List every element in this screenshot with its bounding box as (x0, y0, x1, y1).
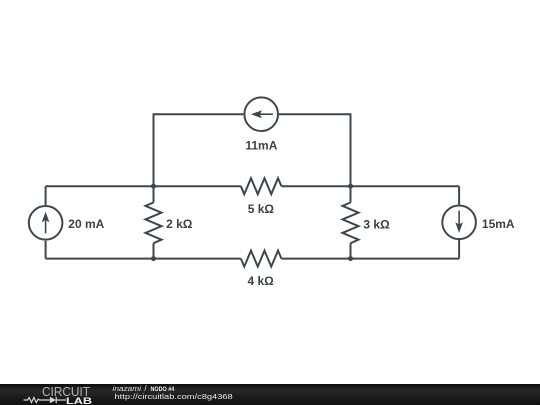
current source I3 15mA circle (442, 206, 476, 240)
current source I2 20mA circle (29, 206, 63, 240)
wire right branch above 15mA source (458, 186, 460, 204)
node junction dot A (151, 184, 156, 189)
wire right branch below 15mA source (458, 240, 460, 259)
wire 3k branch top stub (350, 186, 352, 202)
node junction dot B (348, 184, 353, 189)
svg-text:LAB: LAB (66, 396, 92, 405)
wire top loop left: node A up and across to 11mA source (154, 114, 244, 186)
logo diode triangle (50, 397, 56, 403)
svg-text:2 kΩ: 2 kΩ (166, 217, 193, 231)
wire left branch above 20mA source (45, 186, 47, 205)
wire top rail right segment (281, 185, 459, 187)
logo diode wire out (56, 399, 66, 401)
arrow shaft I2 (up) (45, 217, 47, 233)
wire 3k branch bottom stub (350, 243, 352, 258)
svg-text:4 kΩ: 4 kΩ (247, 274, 274, 288)
resistor R 3k zigzag (343, 203, 359, 244)
wire bottom rail left segment (46, 258, 241, 260)
svg-text:15mA: 15mA (482, 217, 515, 231)
wire 2k branch top stub (153, 186, 155, 202)
logo diode cathode bar (55, 397, 57, 403)
wire left branch below 20mA source (45, 241, 47, 259)
svg-text:3 kΩ: 3 kΩ (363, 218, 390, 232)
node junction dot D (348, 256, 353, 261)
wire bottom rail right segment (281, 258, 459, 260)
resistor R 5k zigzag (241, 178, 282, 194)
wire 2k branch bottom stub (153, 243, 155, 258)
arrowhead I2 pointing up (42, 212, 50, 223)
svg-text:20 mA: 20 mA (68, 217, 104, 231)
arrowhead I1 pointing left (251, 110, 262, 118)
wire top rail left segment (46, 185, 241, 187)
current source I1 11mA circle (244, 97, 278, 131)
svg-text:11mA: 11mA (245, 139, 277, 153)
node junction dot C (151, 256, 156, 261)
svg-text:http://circuitlab.com/c8g4368: http://circuitlab.com/c8g4368 (115, 392, 233, 401)
logo resistor squiggle and wire (24, 398, 50, 403)
arrowhead I3 pointing down (455, 222, 463, 233)
resistor R 4k zigzag (241, 251, 282, 267)
svg-text:5 kΩ: 5 kΩ (248, 202, 275, 216)
arrow shaft I1 (left) (258, 113, 273, 115)
wire top loop right: 11mA source across and down to node B (279, 114, 351, 186)
arrow shaft I3 (down) (458, 211, 460, 228)
resistor R 2k zigzag (146, 203, 162, 244)
